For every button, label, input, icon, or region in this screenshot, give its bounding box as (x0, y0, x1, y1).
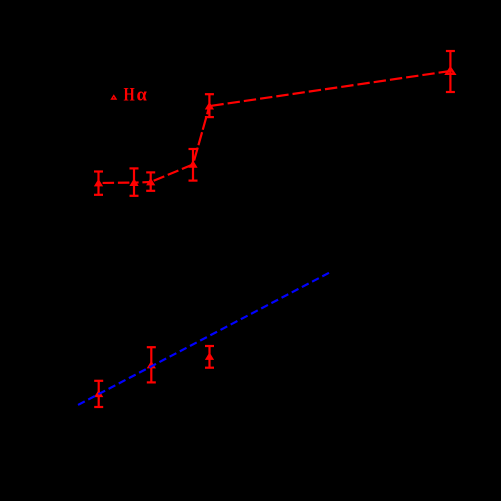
errorbar P1 (94, 172, 103, 195)
wire P1-P2 (99, 182, 135, 185)
errorbar P3 (146, 172, 155, 190)
svg-text:α: α (137, 86, 148, 106)
marker P4 (190, 162, 196, 167)
blue dashed fit line (76, 273, 329, 406)
marker P5 (206, 104, 212, 109)
wire P3-P4 (151, 164, 193, 182)
red dashed connecting line (upper series), per-segment (99, 71, 451, 183)
wire P4-P5 steep (193, 106, 209, 164)
marker P3 (148, 179, 154, 184)
marker lower C (206, 354, 212, 359)
marker P6 (large open triangle) (446, 68, 454, 74)
errorbar P4 (189, 149, 198, 181)
errorbar P5 (205, 94, 214, 117)
errorbar lower C (205, 346, 214, 368)
errorbar P6 (446, 51, 455, 92)
errorbar lower B (147, 347, 156, 382)
marker P2 (131, 180, 137, 185)
wire P5-P6 (209, 71, 450, 106)
marker lower B (148, 362, 154, 367)
errorbar P2 (130, 168, 139, 195)
svg-text:H: H (124, 84, 135, 105)
marker lower A (96, 391, 102, 396)
wire P2-P3 (134, 181, 151, 184)
marker P1 (95, 180, 101, 185)
errorbar lower A (94, 381, 103, 407)
legend marker triangle (112, 96, 116, 99)
